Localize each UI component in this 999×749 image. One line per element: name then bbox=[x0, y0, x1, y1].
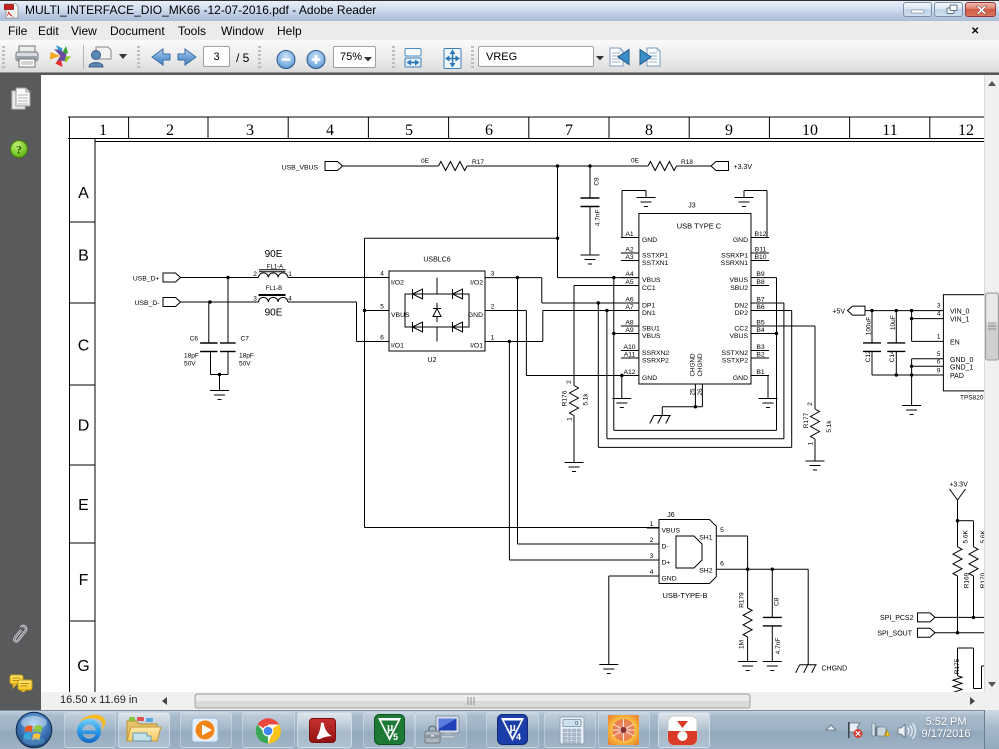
svg-text:C12: C12 bbox=[865, 350, 872, 362]
resistor R17 value 0E bbox=[421, 158, 484, 171]
svg-text:A12: A12 bbox=[623, 369, 635, 376]
frame row letters bbox=[77, 185, 89, 675]
ground at J3 A1 bbox=[637, 198, 656, 207]
ground below R177 bbox=[806, 461, 825, 470]
svg-text:4: 4 bbox=[516, 732, 521, 742]
J6 pin 5 SH1 bbox=[699, 527, 747, 569]
wire SPI_SOUT bbox=[935, 631, 999, 634]
svg-text:1: 1 bbox=[937, 334, 941, 341]
wire DP1 down to J6 D- bbox=[518, 278, 659, 544]
ground at J3 B12 bbox=[735, 198, 754, 207]
svg-text:B1: B1 bbox=[756, 369, 765, 376]
J6 pin 1 VBUS bbox=[647, 521, 681, 535]
J3 pin B2 SSTXP2 bbox=[722, 352, 769, 365]
svg-text:E: E bbox=[78, 497, 89, 514]
wire SH2 to chassis ground bbox=[807, 569, 809, 665]
svg-text:GND: GND bbox=[662, 576, 677, 583]
capacitor C12 100uF bbox=[863, 311, 881, 375]
svg-text:0: 0 bbox=[575, 721, 578, 727]
svg-text:DP2: DP2 bbox=[735, 310, 748, 317]
svg-text:GND: GND bbox=[642, 237, 657, 244]
svg-text:A11: A11 bbox=[624, 352, 636, 359]
svg-text:GND: GND bbox=[642, 375, 657, 382]
svg-text:SPI_SOUT: SPI_SOUT bbox=[877, 631, 912, 638]
svg-text:D: D bbox=[78, 418, 90, 435]
svg-text:4.7nF: 4.7nF bbox=[595, 209, 602, 226]
svg-text:A4: A4 bbox=[625, 271, 634, 278]
resistor R177 5.1k bbox=[803, 402, 833, 461]
svg-text:USB_VBUS: USB_VBUS bbox=[282, 165, 319, 172]
svg-text:CC1: CC1 bbox=[642, 285, 656, 292]
svg-text:10uF: 10uF bbox=[890, 315, 897, 330]
J3 pin A6 DP1 bbox=[621, 297, 656, 310]
J3 pin A7 DN1 bbox=[621, 304, 656, 317]
svg-text:J3: J3 bbox=[688, 203, 696, 210]
svg-text:3: 3 bbox=[253, 296, 257, 303]
J3 pin B10 SSRXN1 bbox=[721, 254, 769, 267]
wire A12 GND drop bbox=[621, 376, 623, 399]
svg-text:CHGND: CHGND bbox=[822, 666, 848, 673]
svg-text:A7: A7 bbox=[625, 304, 634, 311]
resistor R170 5.6K bbox=[969, 521, 987, 618]
svg-text:1: 1 bbox=[808, 441, 815, 445]
svg-text:SSTXN1: SSTXN1 bbox=[642, 260, 669, 267]
resistor R176 5.1k bbox=[562, 380, 590, 463]
wire U2 pin5 VBUS bbox=[363, 309, 389, 312]
capacitor C7 18pF 50V bbox=[220, 278, 254, 375]
wire VBUS branch to left vertical bbox=[365, 237, 560, 240]
svg-text:SSRXP2: SSRXP2 bbox=[642, 358, 669, 365]
wire U2 pin2 GND to A12 bbox=[485, 311, 639, 378]
svg-text:B9: B9 bbox=[756, 271, 765, 278]
svg-text:D-: D- bbox=[662, 544, 669, 551]
svg-text:SSTXP1: SSTXP1 bbox=[642, 253, 668, 260]
svg-text:5: 5 bbox=[405, 122, 413, 139]
J3 pin B3 SSTXN2 bbox=[722, 344, 769, 357]
J6 pin 4 GND bbox=[647, 569, 677, 583]
ground below TPS bbox=[902, 406, 921, 415]
svg-text:B6: B6 bbox=[756, 304, 765, 311]
frame column numbers bbox=[99, 122, 974, 139]
svg-text:C9: C9 bbox=[594, 177, 601, 186]
J3 pin A5 CC1 bbox=[621, 279, 656, 292]
J3 shield pins 25 26 CHGND bbox=[662, 353, 704, 415]
wire DN2 loop to DN1 bbox=[607, 303, 784, 439]
svg-text:5.1k: 5.1k bbox=[826, 420, 833, 433]
J3 pin B11 SSRXP1 bbox=[721, 247, 769, 260]
svg-text:G: G bbox=[77, 658, 89, 675]
svg-text:C6: C6 bbox=[190, 336, 199, 343]
svg-text:TPS820: TPS820 bbox=[960, 395, 984, 402]
svg-text:R18: R18 bbox=[681, 159, 693, 166]
svg-text:6: 6 bbox=[720, 561, 724, 568]
svg-text:1: 1 bbox=[650, 521, 654, 528]
svg-text:A: A bbox=[78, 185, 89, 202]
svg-text:SSRXP1: SSRXP1 bbox=[721, 253, 748, 260]
svg-text:R175: R175 bbox=[954, 658, 961, 674]
svg-text:R179: R179 bbox=[739, 592, 746, 608]
J3 pin B4 VBUS bbox=[729, 327, 769, 340]
svg-text:I/O2: I/O2 bbox=[391, 280, 404, 287]
svg-text:9: 9 bbox=[725, 122, 733, 139]
svg-text:25: 25 bbox=[690, 388, 697, 396]
svg-text:0E: 0E bbox=[421, 158, 430, 165]
svg-text:B7: B7 bbox=[756, 297, 765, 304]
J3 pin B7 DN2 bbox=[734, 297, 769, 310]
svg-text:SH1: SH1 bbox=[699, 535, 712, 542]
ground at A12 bbox=[612, 399, 631, 408]
wire J3 B12 GND bracket bbox=[744, 191, 767, 238]
J6 pin 6 SH2 bbox=[699, 561, 808, 575]
capacitor C9 4.7nF bbox=[581, 166, 602, 255]
svg-text:I/O2: I/O2 bbox=[470, 280, 483, 287]
J3 pin B1 GND bbox=[733, 369, 769, 382]
svg-text:R177: R177 bbox=[803, 412, 810, 428]
svg-text:VBUS: VBUS bbox=[642, 333, 661, 340]
svg-text:SSRXN1: SSRXN1 bbox=[721, 260, 748, 267]
svg-text:SBU1: SBU1 bbox=[642, 326, 660, 333]
svg-text:GND: GND bbox=[468, 312, 483, 319]
svg-text:B12: B12 bbox=[754, 231, 766, 238]
ground below J6 bbox=[599, 665, 618, 674]
svg-text:VIN_1: VIN_1 bbox=[950, 317, 970, 324]
net flag USB_D- bbox=[135, 298, 181, 308]
wire +5V rail bbox=[865, 309, 943, 312]
svg-text:GND: GND bbox=[733, 237, 748, 244]
svg-text:7: 7 bbox=[565, 122, 573, 139]
J3 pin B9 VBUS bbox=[729, 271, 769, 284]
wire R17 to R18 bbox=[467, 165, 648, 167]
svg-text:SBU2: SBU2 bbox=[730, 285, 748, 292]
svg-text:18pF: 18pF bbox=[239, 353, 254, 360]
svg-text:µ: µ bbox=[510, 722, 516, 734]
net flag +5V bbox=[832, 306, 865, 315]
svg-text:5: 5 bbox=[393, 732, 398, 742]
TVS array U2 USBLC6 bbox=[380, 257, 495, 365]
svg-text:SH2: SH2 bbox=[699, 568, 712, 575]
J6 pin 3 D+ bbox=[647, 553, 671, 567]
svg-text:USB-TYPE-B: USB-TYPE-B bbox=[662, 591, 707, 600]
J3 pin B5 CC2 bbox=[734, 320, 769, 333]
svg-text:USBLC6: USBLC6 bbox=[423, 257, 450, 264]
J3 pin B8 SBU2 bbox=[730, 279, 769, 292]
J3 pin A4 VBUS bbox=[621, 271, 661, 284]
wire U2 pin3 to DP1 bbox=[485, 276, 639, 305]
ground below R176 bbox=[565, 463, 584, 472]
svg-text:0E: 0E bbox=[631, 158, 640, 165]
capacitor C6 18pF 50V bbox=[184, 302, 218, 375]
svg-text:4: 4 bbox=[650, 569, 654, 576]
svg-text:4: 4 bbox=[937, 311, 941, 318]
wire VIN_1 EN branch bbox=[910, 311, 944, 342]
svg-text:CHGND: CHGND bbox=[690, 353, 697, 377]
J3 pin A1 GND bbox=[621, 231, 657, 244]
svg-text:B4: B4 bbox=[756, 327, 765, 334]
svg-text:5: 5 bbox=[937, 351, 941, 358]
svg-text:DP1: DP1 bbox=[642, 303, 655, 310]
svg-text:26: 26 bbox=[697, 388, 704, 396]
svg-text:90E: 90E bbox=[265, 308, 283, 319]
wire CC1 A5 bbox=[574, 286, 639, 386]
svg-text:3: 3 bbox=[937, 303, 941, 310]
net flag USB_D+ bbox=[133, 273, 181, 283]
ferrite bead FL1-B 90E bbox=[253, 286, 292, 319]
svg-text:SSRXN2: SSRXN2 bbox=[642, 350, 669, 357]
wire USB_VBUS to R17 bbox=[343, 165, 439, 167]
svg-text:VBUS: VBUS bbox=[662, 528, 681, 535]
svg-text:R176: R176 bbox=[562, 390, 569, 406]
J6 pin 2 D- bbox=[647, 537, 669, 551]
J3 pin A9 VBUS bbox=[621, 327, 661, 340]
connector J6 USB-TYPE-B body bbox=[659, 512, 716, 600]
svg-text:B8: B8 bbox=[756, 279, 765, 286]
svg-text:D+: D+ bbox=[662, 560, 671, 567]
svg-text:SPI_PCS2: SPI_PCS2 bbox=[880, 615, 914, 622]
wire USB_D+ to FL1-A bbox=[181, 276, 259, 279]
capacitor C14 10uF bbox=[887, 311, 905, 375]
resistor R175 bbox=[953, 648, 995, 694]
resistor R169 5.6K bbox=[953, 521, 970, 633]
ground below C8 bbox=[763, 662, 782, 671]
svg-text:10: 10 bbox=[802, 122, 818, 139]
svg-text:SSTXN2: SSTXN2 bbox=[722, 350, 749, 357]
svg-text:6: 6 bbox=[380, 335, 384, 342]
svg-text:B11: B11 bbox=[755, 247, 767, 254]
J3 pin B6 DP2 bbox=[735, 304, 769, 317]
resistor R18 value 0E bbox=[631, 158, 693, 171]
svg-text:R169: R169 bbox=[963, 572, 970, 588]
svg-text:B10: B10 bbox=[754, 254, 766, 261]
svg-text:2: 2 bbox=[650, 537, 654, 544]
svg-text:2: 2 bbox=[166, 122, 174, 139]
node pullup junction bbox=[956, 519, 974, 522]
J3 pin A2 SSTXP1 bbox=[621, 247, 668, 260]
J3 pin A3 SSTXN1 bbox=[621, 254, 669, 267]
svg-text:A3: A3 bbox=[625, 254, 634, 261]
svg-text:B3: B3 bbox=[756, 344, 765, 351]
svg-text:6: 6 bbox=[937, 359, 941, 366]
chassis ground CHGND bbox=[796, 665, 847, 673]
svg-text:C14: C14 bbox=[889, 350, 896, 362]
wire J6 GND drop bbox=[609, 576, 659, 665]
wire B1 GND drop bbox=[767, 376, 769, 399]
svg-text:1: 1 bbox=[99, 122, 107, 139]
J3 pin A10 SSRXN2 bbox=[621, 344, 670, 357]
wire C6 C7 common bbox=[211, 373, 229, 391]
svg-text:USB_D+: USB_D+ bbox=[133, 276, 160, 283]
svg-text:90E: 90E bbox=[265, 249, 283, 260]
svg-text:R17: R17 bbox=[472, 159, 484, 166]
svg-text:VBUS: VBUS bbox=[729, 333, 748, 340]
svg-text:GND_0: GND_0 bbox=[950, 357, 973, 364]
svg-text:SSTXP2: SSTXP2 bbox=[722, 358, 748, 365]
svg-text:5.1k: 5.1k bbox=[583, 393, 590, 406]
wire DP2 loop to DP1 bbox=[598, 303, 791, 447]
svg-text:A5: A5 bbox=[625, 279, 634, 286]
wire DN1 down to J6 D+ bbox=[509, 342, 658, 561]
svg-text:I/O1: I/O1 bbox=[470, 343, 483, 350]
svg-text:F: F bbox=[79, 572, 89, 589]
J3 pin B12 GND bbox=[733, 231, 769, 244]
svg-text:B: B bbox=[78, 248, 89, 265]
svg-text:3: 3 bbox=[650, 553, 654, 560]
svg-text:I/O1: I/O1 bbox=[391, 343, 404, 350]
connector J3 USB TYPE C body bbox=[639, 203, 751, 385]
svg-text:EN: EN bbox=[950, 340, 960, 347]
svg-text:3: 3 bbox=[491, 271, 495, 278]
wire VBUS loop B9 B4 A9 bbox=[612, 278, 778, 431]
wire SPI_PCS2 bbox=[935, 616, 999, 619]
svg-text:FL1-B: FL1-B bbox=[266, 286, 282, 292]
ground at B1 bbox=[759, 399, 778, 408]
ground below C9 bbox=[581, 255, 600, 264]
ferrite bead FL1-A 90E bbox=[253, 249, 292, 278]
svg-text:50V: 50V bbox=[184, 361, 196, 368]
svg-text:+3.3V: +3.3V bbox=[949, 482, 968, 489]
svg-text:CC2: CC2 bbox=[734, 326, 748, 333]
svg-text:2: 2 bbox=[491, 304, 495, 311]
wire FL1-B to U2 pin6 bbox=[288, 302, 389, 342]
chassis ground below J3 bbox=[650, 416, 671, 424]
ground below C6 C7 bbox=[210, 391, 229, 400]
J3 pin A12 GND bbox=[621, 369, 657, 382]
svg-text:1: 1 bbox=[567, 417, 574, 421]
svg-text:2: 2 bbox=[566, 380, 573, 384]
regulator U TPS82 box bbox=[937, 295, 999, 402]
svg-text:C8: C8 bbox=[774, 597, 781, 606]
svg-text:VIN_0: VIN_0 bbox=[950, 309, 970, 316]
svg-text:6: 6 bbox=[485, 122, 493, 139]
svg-text:A2: A2 bbox=[625, 247, 634, 254]
svg-text:VBUS: VBUS bbox=[642, 277, 661, 284]
svg-text:A1: A1 bbox=[625, 231, 634, 238]
svg-text:100uF: 100uF bbox=[866, 317, 873, 335]
svg-text:5: 5 bbox=[380, 304, 384, 311]
net flag USB_VBUS bbox=[282, 162, 343, 172]
svg-text:1M: 1M bbox=[739, 640, 746, 649]
svg-text:GND: GND bbox=[733, 375, 748, 382]
J3 pin A8 SBU1 bbox=[621, 320, 660, 333]
svg-text:18pF: 18pF bbox=[184, 353, 199, 360]
svg-text:11: 11 bbox=[882, 122, 897, 139]
svg-text:DN2: DN2 bbox=[734, 303, 748, 310]
svg-text:5: 5 bbox=[720, 527, 724, 534]
wire VBUS junction down to A4 row bbox=[558, 166, 639, 279]
wire FL1-A to U2 pin4 bbox=[288, 277, 389, 279]
svg-text:A6: A6 bbox=[625, 297, 634, 304]
net flag SPI_PCS2 bbox=[880, 613, 935, 622]
svg-text:3: 3 bbox=[246, 122, 254, 139]
svg-text:GND_1: GND_1 bbox=[950, 365, 973, 372]
svg-text:C: C bbox=[78, 338, 90, 355]
wire GND_0 GND_1 branch bbox=[910, 359, 944, 406]
svg-text:A9: A9 bbox=[625, 327, 634, 334]
svg-text:VBUS: VBUS bbox=[391, 312, 410, 319]
junction node VBUS/C9 bbox=[556, 164, 592, 167]
resistor R179 1M bbox=[739, 569, 753, 661]
svg-text:?: ? bbox=[16, 143, 22, 157]
svg-text:4: 4 bbox=[288, 296, 292, 303]
svg-text:A10: A10 bbox=[623, 344, 635, 351]
svg-text:DN1: DN1 bbox=[642, 310, 656, 317]
svg-text:VBUS: VBUS bbox=[729, 277, 748, 284]
svg-text:8: 8 bbox=[645, 122, 653, 139]
capacitor C8 4.7nF bbox=[763, 569, 782, 661]
svg-text:+5V: +5V bbox=[832, 309, 845, 316]
svg-text:4: 4 bbox=[380, 271, 384, 278]
schematic frame border bbox=[68, 117, 984, 692]
svg-text:12: 12 bbox=[958, 122, 974, 139]
svg-text:2: 2 bbox=[253, 271, 257, 278]
J3 pin A11 SSRXP2 bbox=[621, 352, 669, 365]
svg-text:B2: B2 bbox=[756, 352, 765, 359]
svg-text:C7: C7 bbox=[241, 336, 250, 343]
wire R18 to +3.3V flag bbox=[677, 165, 712, 167]
wire caps bottom to PAD bbox=[872, 373, 943, 376]
wire CC2 B5 to R177 bbox=[769, 326, 815, 409]
svg-text:U2: U2 bbox=[428, 357, 437, 364]
svg-text:A8: A8 bbox=[625, 320, 634, 327]
svg-text:4: 4 bbox=[326, 122, 334, 139]
svg-text:1: 1 bbox=[491, 335, 495, 342]
svg-text:B5: B5 bbox=[756, 320, 765, 327]
svg-text:CHGND: CHGND bbox=[697, 353, 704, 377]
svg-text:2: 2 bbox=[807, 402, 814, 406]
svg-text:PAD: PAD bbox=[950, 373, 964, 380]
svg-text:J6: J6 bbox=[667, 512, 675, 519]
net flag SPI_SOUT bbox=[877, 628, 935, 637]
wire U2 pin1 to DN1 bbox=[485, 309, 639, 343]
svg-text:+3.3V: +3.3V bbox=[734, 164, 753, 171]
svg-text:USB_D-: USB_D- bbox=[135, 300, 160, 307]
wire VBUS left vertical down to J6 bbox=[365, 238, 659, 527]
svg-text:50V: 50V bbox=[239, 361, 251, 368]
wire J3 A1 GND bracket bbox=[622, 191, 646, 238]
svg-text:9: 9 bbox=[937, 368, 941, 375]
ground below R179 bbox=[738, 662, 757, 671]
svg-text:4.7nF: 4.7nF bbox=[775, 638, 782, 655]
net flag +3.3V bbox=[711, 162, 752, 172]
svg-text:USB TYPE C: USB TYPE C bbox=[677, 222, 722, 231]
svg-text:1: 1 bbox=[288, 271, 292, 278]
wire USB_D- to FL1-B bbox=[181, 300, 259, 303]
power symbol +3.3V bbox=[949, 482, 968, 521]
svg-text:5.6K: 5.6K bbox=[963, 529, 970, 543]
